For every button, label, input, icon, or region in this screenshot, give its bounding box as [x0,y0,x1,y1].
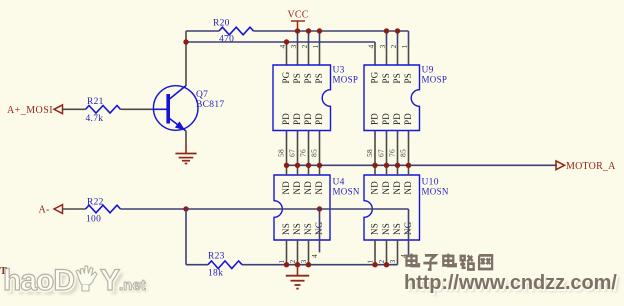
svg-text:MOSN: MOSN [333,187,360,197]
svg-text:470: 470 [219,35,234,45]
svg-text:PS: PS [292,73,302,83]
svg-text:1: 1 [277,260,286,264]
svg-text:PS: PS [303,73,313,83]
svg-text:PD: PD [292,113,302,125]
svg-text:2: 2 [300,45,309,49]
svg-text:PS: PS [381,73,391,83]
svg-text:NS: NS [381,223,391,235]
svg-text:NS: NS [303,223,313,235]
svg-text:PD: PD [392,113,402,125]
svg-text:67: 67 [287,149,296,157]
svg-text:VCC: VCC [288,10,309,21]
svg-text:PG: PG [281,71,291,83]
svg-text:2: 2 [389,45,398,49]
svg-text:ND: ND [392,181,402,195]
svg-text:2: 2 [377,260,386,264]
svg-text:R20: R20 [213,19,230,29]
svg-text:ND: ND [370,181,380,195]
svg-text:A+_MOSI: A+_MOSI [7,105,53,116]
svg-text:76: 76 [387,149,396,157]
svg-text:1: 1 [311,45,320,49]
svg-text:PG: PG [370,71,380,83]
svg-text:67: 67 [376,149,385,157]
svg-text:3: 3 [378,45,387,49]
svg-text:PD: PD [381,113,391,125]
svg-text:18k: 18k [208,269,223,279]
svg-text:MOTOR_A: MOTOR_A [566,161,616,172]
svg-text:ND: ND [381,181,391,195]
svg-text:R22: R22 [87,198,104,208]
svg-text:85: 85 [398,149,407,157]
svg-text:4: 4 [367,45,376,49]
svg-text:4: 4 [278,45,287,49]
svg-text:3: 3 [388,260,397,264]
svg-text:1: 1 [400,45,409,49]
svg-text:58: 58 [365,149,374,157]
svg-text:PS: PS [403,73,413,83]
svg-text:85: 85 [309,149,318,157]
svg-text:MOSP: MOSP [333,75,359,85]
svg-text:MOSN: MOSN [422,187,449,197]
svg-text:PS: PS [392,73,402,83]
svg-text:PS: PS [314,73,324,83]
svg-text:R23: R23 [208,252,225,262]
svg-text:1: 1 [366,260,375,264]
svg-text:3: 3 [299,260,308,264]
svg-text:PD: PD [281,113,291,125]
svg-text:NS: NS [392,223,402,235]
svg-text:PD: PD [303,113,313,125]
svg-text:MOSP: MOSP [422,75,448,85]
svg-text:4: 4 [310,254,319,258]
svg-text:4.7k: 4.7k [86,114,104,124]
svg-text:PD: PD [314,113,324,125]
svg-text:3: 3 [289,45,298,49]
svg-text:BC817: BC817 [196,100,224,110]
svg-text:PD: PD [403,113,413,125]
svg-text:2: 2 [288,260,297,264]
svg-text:Q7: Q7 [196,90,208,100]
svg-text:100: 100 [86,215,101,225]
svg-text:NS: NS [370,223,380,235]
svg-text:76: 76 [298,149,307,157]
svg-text:ND: ND [303,181,313,195]
svg-text:58: 58 [276,149,285,157]
svg-text:ND: ND [314,181,324,195]
svg-text:ND: ND [281,181,291,195]
svg-text:ND: ND [292,181,302,195]
svg-text:ND: ND [403,181,413,195]
svg-text:R21: R21 [87,97,104,107]
svg-text:NS: NS [281,223,291,235]
svg-text:NS: NS [292,223,302,235]
svg-text:A-: A- [39,205,50,216]
svg-text:PD: PD [370,113,380,125]
